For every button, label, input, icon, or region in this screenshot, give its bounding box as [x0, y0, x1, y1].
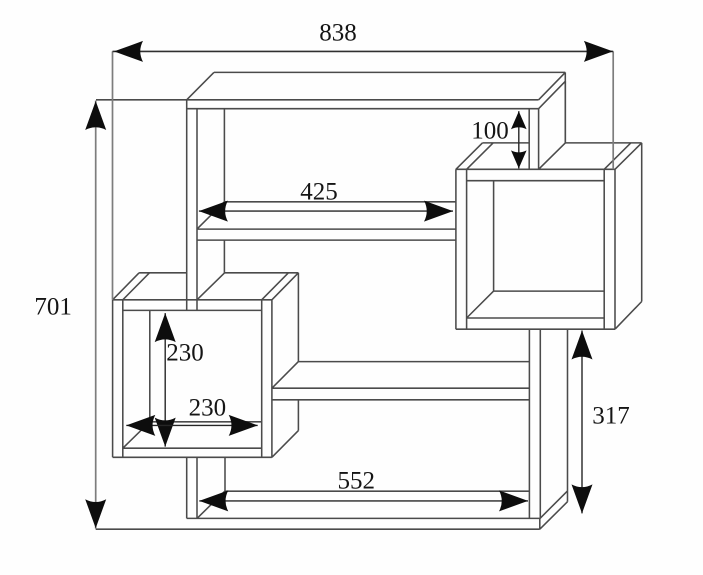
svg-text:230: 230 — [189, 395, 227, 422]
svg-text:100: 100 — [471, 118, 509, 145]
middle shelf 425 — [197, 202, 456, 240]
dimension 230 horizontal — [126, 395, 257, 436]
middle small shelf — [272, 362, 530, 400]
dimension 100 — [471, 111, 526, 168]
dimension 230 vertical — [155, 313, 204, 447]
right divider — [529, 329, 567, 518]
right box — [456, 143, 642, 329]
bottom shelf — [96, 491, 568, 529]
dimension 552 — [199, 467, 528, 511]
dimension 425 — [199, 178, 453, 221]
left side panel — [187, 100, 225, 519]
extension lines — [96, 51, 614, 528]
svg-text:230: 230 — [166, 340, 204, 367]
dimension 701 — [34, 101, 106, 528]
dimension 838 — [113, 20, 614, 62]
svg-text:701: 701 — [34, 294, 72, 321]
svg-text:552: 552 — [337, 467, 375, 494]
svg-text:838: 838 — [319, 20, 357, 47]
top shelf — [96, 72, 565, 142]
svg-text:425: 425 — [300, 178, 338, 205]
support panel 100 — [529, 81, 565, 169]
dimension 317 — [572, 331, 630, 514]
left box — [113, 273, 299, 458]
svg-text:317: 317 — [592, 403, 630, 430]
